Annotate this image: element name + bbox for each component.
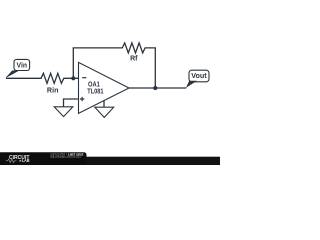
svg-text:Vout: Vout <box>191 73 207 80</box>
svg-text:http://circuitlab.com/c/9r2363: http://circuitlab.com/c/9r2363 <box>50 155 81 159</box>
svg-text:LAB: LAB <box>22 158 30 163</box>
svg-text:Vin: Vin <box>17 62 28 69</box>
svg-text:Rin: Rin <box>47 88 59 95</box>
svg-text:TL081: TL081 <box>87 89 103 96</box>
svg-text:OA1: OA1 <box>88 82 100 89</box>
svg-text:Rf: Rf <box>130 56 138 63</box>
